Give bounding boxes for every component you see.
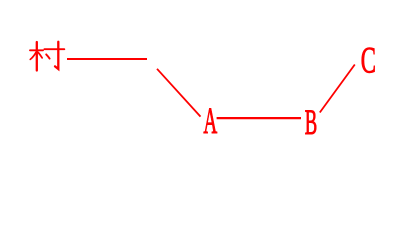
wire bend to A [157, 69, 201, 117]
wire 村 to bend [67, 58, 147, 60]
寸 vertical with hook [55, 42, 58, 69]
svg-text:B: B [305, 103, 317, 143]
寸 horizontal [44, 48, 64, 50]
木 horizontal [30, 49, 43, 51]
木 right dot [38, 52, 42, 57]
wire B to C [320, 65, 355, 113]
svg-text:A: A [203, 102, 217, 142]
木 left-falling stroke [30, 52, 36, 59]
label 村 (village) [30, 42, 64, 71]
木 vertical [36, 42, 38, 71]
寸 dot [46, 54, 49, 58]
svg-text:C: C [361, 40, 376, 81]
wire A to B [217, 117, 301, 119]
